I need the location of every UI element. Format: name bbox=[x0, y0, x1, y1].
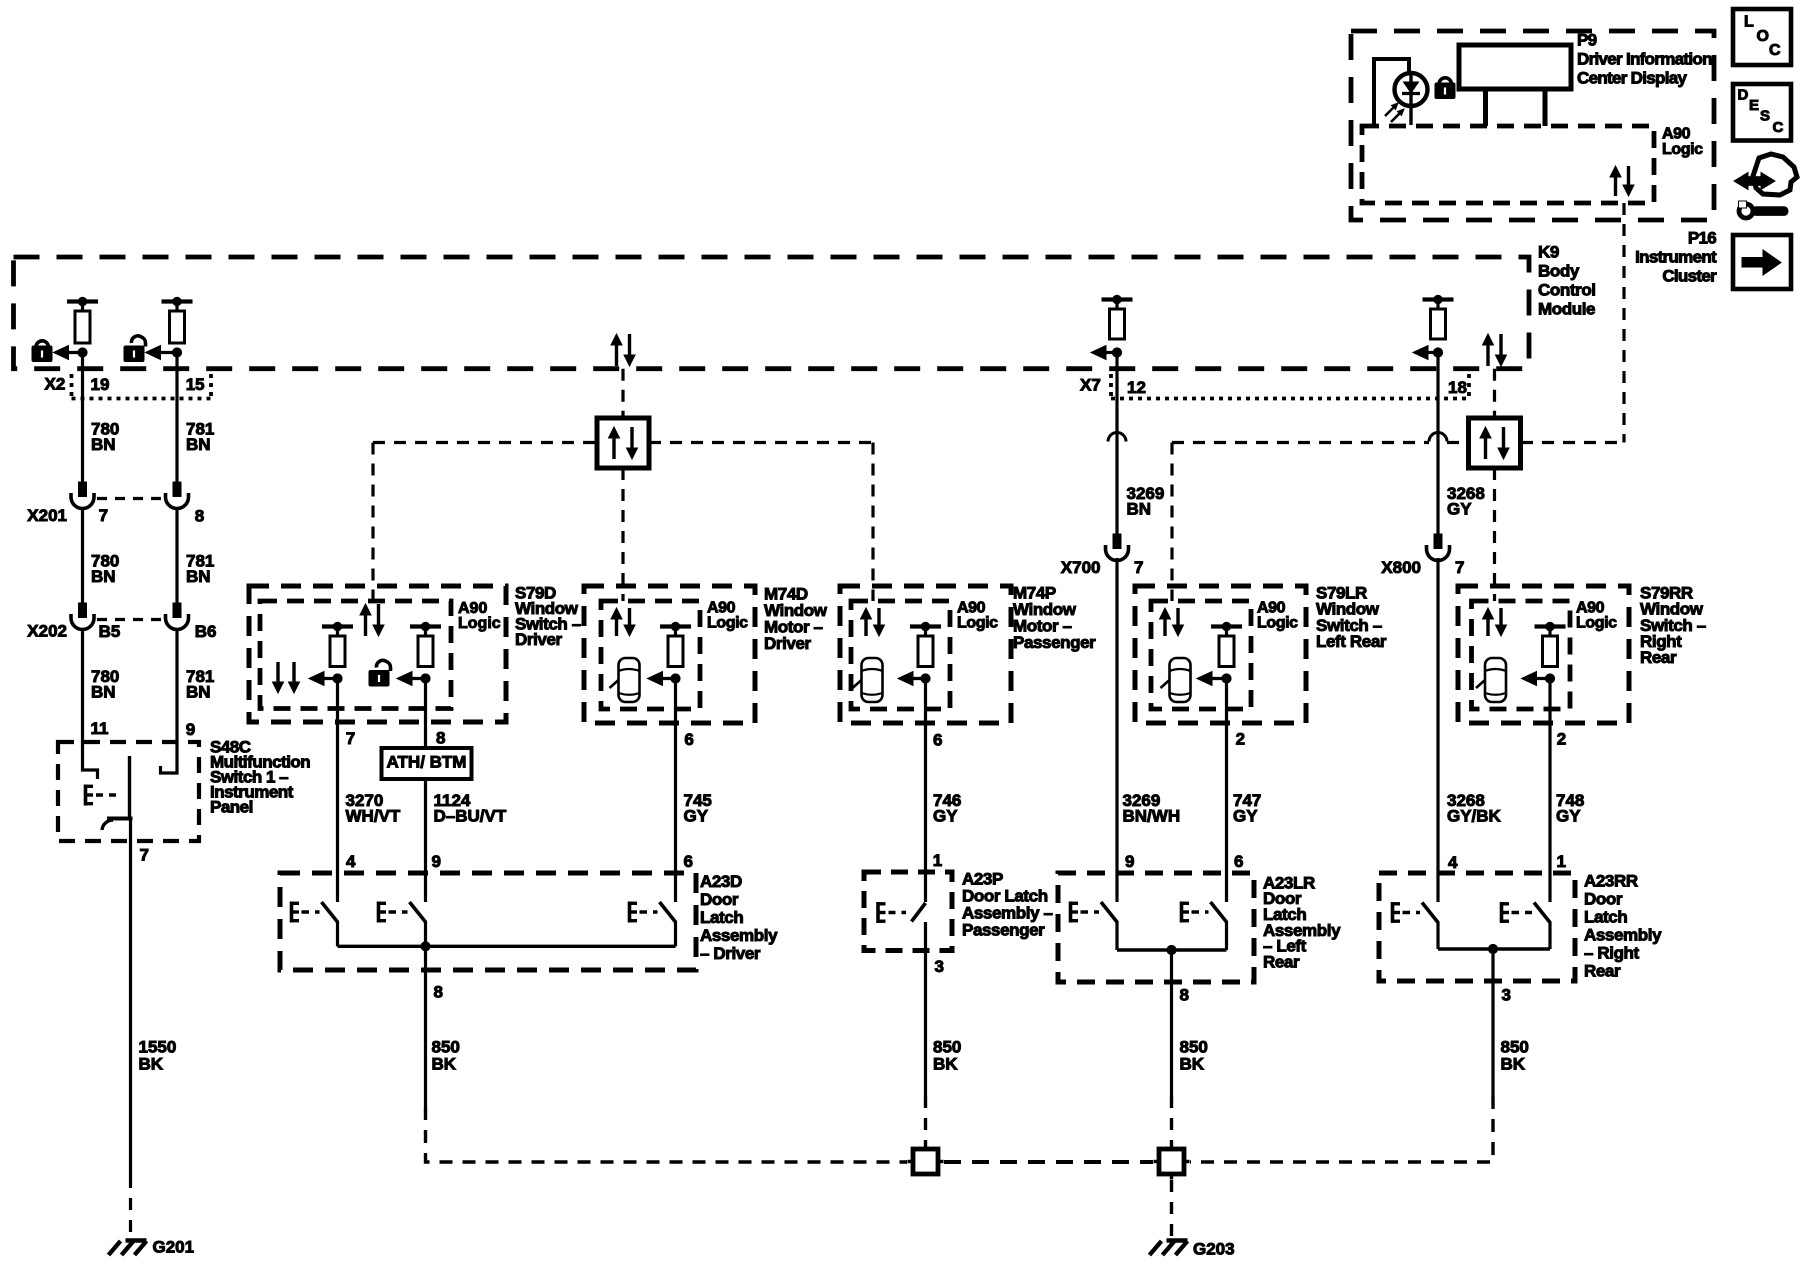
svg-text:Instrument: Instrument bbox=[1635, 247, 1717, 266]
svg-text:BK: BK bbox=[1180, 1054, 1205, 1073]
svg-text:Rear: Rear bbox=[1640, 648, 1677, 667]
svg-text:A90: A90 bbox=[1662, 126, 1691, 143]
svg-text:Logic: Logic bbox=[458, 615, 501, 632]
svg-text:D–BU/VT: D–BU/VT bbox=[434, 806, 507, 825]
svg-text:C: C bbox=[1773, 119, 1784, 136]
svg-text:2: 2 bbox=[1557, 729, 1566, 748]
wire 780 BN (X201 to X202) bbox=[81, 507, 84, 603]
resistor BCM window output (pin 18) bbox=[1423, 297, 1454, 301]
wire 3269 BN/WH (X700 to A23LR) bbox=[1115, 558, 1118, 902]
lock icon (unlocked) S79D bbox=[376, 660, 390, 671]
wire A23D pin 8 / 850 BK bbox=[424, 946, 427, 1107]
resistor BCM unlock output (pin 15) bbox=[162, 299, 193, 303]
svg-text:4: 4 bbox=[346, 852, 356, 871]
door latch switch 1 A23LR bbox=[1069, 902, 1073, 923]
resistor BCM lock output (pin 19) bbox=[67, 299, 98, 303]
svg-text:BN: BN bbox=[91, 682, 116, 701]
svg-text:Driver: Driver bbox=[764, 634, 812, 653]
svg-text:19: 19 bbox=[91, 375, 110, 394]
serial data arrows BCM (driver side) bbox=[615, 343, 618, 366]
serial arrows M74P bbox=[864, 617, 867, 636]
svg-text:BN: BN bbox=[91, 567, 116, 586]
svg-text:Door: Door bbox=[1584, 889, 1623, 908]
wire 780 BN (pin 19 to X201) bbox=[81, 353, 84, 483]
svg-text:B5: B5 bbox=[99, 622, 121, 641]
wire S48C pin 7 bbox=[129, 819, 132, 1177]
svg-text:Latch: Latch bbox=[1584, 907, 1627, 926]
svg-text:Rear: Rear bbox=[1584, 961, 1621, 980]
svg-text:Assembly: Assembly bbox=[700, 926, 778, 945]
A90 Logic box S79LR bbox=[1151, 601, 1251, 709]
resistor M74P bbox=[910, 624, 941, 628]
svg-text:Latch: Latch bbox=[700, 908, 743, 927]
arrow S79LR bbox=[1208, 677, 1227, 680]
serial data line rear gateway branches bbox=[1172, 441, 1429, 444]
svg-text:1: 1 bbox=[933, 851, 942, 870]
svg-text:BK: BK bbox=[933, 1054, 958, 1073]
svg-text:9: 9 bbox=[186, 720, 195, 739]
wire S79D pin 7 bbox=[336, 679, 339, 903]
connector X2 bbox=[70, 374, 74, 399]
svg-text:O: O bbox=[1757, 28, 1769, 45]
common wire A23D bbox=[338, 945, 676, 948]
A90 Logic box S79RR bbox=[1472, 601, 1571, 709]
component box P9 Driver Information Center Display bbox=[1351, 31, 1714, 220]
A90 Logic box S79D bbox=[260, 601, 451, 709]
svg-text:X202: X202 bbox=[27, 621, 67, 640]
svg-text:X201: X201 bbox=[27, 506, 67, 525]
wire M74D pin 6 / 745 GY bbox=[674, 679, 677, 903]
svg-text:X7: X7 bbox=[1080, 375, 1101, 394]
car icon S79RR bbox=[1485, 658, 1506, 702]
door latch switch 2 A23LR bbox=[1180, 902, 1184, 923]
svg-text:P16: P16 bbox=[1688, 228, 1716, 247]
serial data arrows in P9 A90 bbox=[1614, 175, 1617, 196]
label box ATH/BTM bbox=[382, 748, 472, 779]
svg-text:11: 11 bbox=[91, 719, 109, 738]
svg-text:Logic: Logic bbox=[1257, 615, 1298, 632]
svg-text:BK: BK bbox=[1501, 1054, 1526, 1073]
car icon S79LR bbox=[1170, 658, 1191, 702]
component box A23D Door Latch Assembly - Driver bbox=[280, 873, 696, 970]
svg-text:Left Rear: Left Rear bbox=[1316, 632, 1387, 651]
svg-text:Module: Module bbox=[1538, 299, 1595, 318]
svg-text:8: 8 bbox=[195, 506, 204, 525]
serial arrows S79D bbox=[364, 613, 367, 636]
svg-text:8: 8 bbox=[436, 728, 445, 747]
svg-text:K9: K9 bbox=[1538, 242, 1559, 261]
svg-text:6: 6 bbox=[1234, 852, 1243, 871]
door latch switch 1 A23RR bbox=[1391, 902, 1395, 923]
component box A23RR Door Latch Assembly - Right Rear bbox=[1379, 873, 1575, 981]
svg-text:BK: BK bbox=[432, 1054, 457, 1073]
door latch switch 3 A23D bbox=[628, 902, 632, 923]
svg-text:G201: G201 bbox=[153, 1237, 195, 1256]
svg-text:A23D: A23D bbox=[700, 872, 742, 891]
svg-text:P9: P9 bbox=[1577, 30, 1597, 49]
wire M74P pin 6 / 746 GY bbox=[924, 679, 927, 873]
wire to G203 bbox=[1170, 1180, 1173, 1236]
car icon M74D bbox=[619, 658, 640, 702]
crossover hump X800 wire bbox=[1429, 433, 1447, 442]
svg-text:BN: BN bbox=[186, 567, 211, 586]
svg-text:Driver Information: Driver Information bbox=[1577, 49, 1712, 68]
svg-text:Logic: Logic bbox=[707, 615, 748, 632]
svg-text:Passenger: Passenger bbox=[962, 920, 1045, 939]
svg-text:Center Display: Center Display bbox=[1577, 68, 1687, 87]
photocell icon bbox=[1374, 59, 1409, 125]
svg-text:7: 7 bbox=[346, 729, 355, 748]
component box S48C Multifunction Switch 1 - Instrument Panel bbox=[58, 742, 199, 841]
component box M74P Window Motor - Passenger bbox=[840, 586, 1011, 723]
svg-text:Assembly: Assembly bbox=[1584, 925, 1662, 944]
svg-text:7: 7 bbox=[1134, 558, 1143, 577]
ground G203 bbox=[1167, 1238, 1188, 1242]
arrow S79RR bbox=[1533, 677, 1551, 680]
svg-text:Logic: Logic bbox=[957, 615, 998, 632]
svg-text:Door: Door bbox=[700, 890, 739, 909]
wire A23LR pin 8 / 850 BK bbox=[1170, 950, 1173, 1096]
svg-text:BN: BN bbox=[186, 682, 211, 701]
svg-text:4: 4 bbox=[1448, 853, 1458, 872]
lock icon (locked) in P9 bbox=[1439, 78, 1451, 84]
svg-text:12: 12 bbox=[1127, 378, 1146, 397]
svg-text:6: 6 bbox=[684, 730, 693, 749]
svg-text:Control: Control bbox=[1538, 280, 1596, 299]
svg-text:3: 3 bbox=[935, 957, 944, 976]
svg-text:ATH/ BTM: ATH/ BTM bbox=[387, 752, 467, 771]
svg-text:6: 6 bbox=[684, 852, 693, 871]
connector X201 bbox=[79, 482, 87, 497]
wire 781 BN (pin 15 to X201) bbox=[175, 353, 178, 483]
serial data line driver gateway branches bbox=[373, 441, 597, 444]
serial data arrows BCM (rear side) bbox=[1486, 343, 1489, 366]
wire 781 BN (X202 to S48C pin 9) bbox=[175, 628, 178, 742]
svg-text:– Right: – Right bbox=[1584, 943, 1640, 962]
car icon M74P bbox=[862, 658, 883, 702]
svg-text:Body: Body bbox=[1538, 261, 1580, 280]
resistor S79RR bbox=[1535, 624, 1566, 628]
icon data link connector (arrows, car, wrench) bbox=[1753, 154, 1797, 195]
A90 Logic box inside P9 bbox=[1362, 126, 1654, 203]
wire A23RR pin 3 / 850 BK bbox=[1491, 949, 1494, 1096]
common wire A23LR bbox=[1117, 948, 1227, 951]
svg-text:WH/VT: WH/VT bbox=[346, 806, 401, 825]
component box S79D Window Switch - Driver bbox=[249, 586, 506, 722]
serial arrows S79RR bbox=[1486, 617, 1489, 636]
svg-text:Driver: Driver bbox=[515, 630, 563, 649]
svg-text:B6: B6 bbox=[195, 622, 217, 641]
svg-text:GY: GY bbox=[1233, 806, 1258, 825]
svg-text:BK: BK bbox=[139, 1054, 164, 1073]
wire 3269 BN (pin 12 to X700) bbox=[1115, 353, 1118, 535]
svg-text:G203: G203 bbox=[1193, 1239, 1235, 1258]
svg-text:15: 15 bbox=[186, 375, 205, 394]
icon box forward arrow bbox=[1733, 235, 1791, 289]
window down arrows bbox=[276, 662, 279, 684]
svg-text:8: 8 bbox=[434, 982, 443, 1001]
svg-text:E: E bbox=[1749, 97, 1759, 114]
ground bus dashed 850 BK bbox=[944, 1160, 1153, 1164]
wire 781 BN (X201 to X202) bbox=[175, 507, 178, 603]
svg-text:X2: X2 bbox=[45, 374, 66, 393]
svg-text:Logic: Logic bbox=[1576, 615, 1617, 632]
door latch switch A23P bbox=[876, 902, 880, 923]
svg-text:GY: GY bbox=[933, 806, 958, 825]
svg-text:BN: BN bbox=[186, 435, 211, 454]
common wire A23RR bbox=[1438, 947, 1550, 950]
svg-text:6: 6 bbox=[933, 730, 942, 749]
connector X700 bbox=[1113, 534, 1121, 549]
wire 3268 GY/BK (X800 to A23RR) bbox=[1436, 558, 1439, 902]
serial data symbol (boxed arrows) driver bbox=[597, 418, 649, 468]
connector X7 bbox=[1109, 374, 1113, 399]
svg-text:GY: GY bbox=[684, 806, 709, 825]
wire 3268 GY (pin 18 to X800) bbox=[1436, 353, 1439, 535]
wire S79D pin 8 bbox=[424, 679, 427, 903]
A90 Logic box M74P bbox=[851, 601, 950, 709]
S48C contact pin 11 bbox=[83, 742, 98, 779]
svg-text:9: 9 bbox=[432, 852, 441, 871]
wire S79LR pin 2 / 747 GY bbox=[1225, 679, 1228, 903]
wire S79RR pin 2 / 748 GY bbox=[1548, 679, 1551, 903]
svg-text:BN: BN bbox=[1127, 499, 1152, 518]
svg-text:– Driver: – Driver bbox=[700, 944, 761, 963]
svg-text:BN/WH: BN/WH bbox=[1123, 806, 1181, 825]
display icon P9 bbox=[1459, 45, 1571, 89]
svg-text:Panel: Panel bbox=[210, 797, 253, 816]
svg-text:1: 1 bbox=[1557, 852, 1566, 871]
wire 780 BN (X202 to S48C pin 11) bbox=[81, 628, 84, 742]
serial data line BCM to driver gateway bbox=[621, 369, 624, 418]
ground G201 bbox=[126, 1238, 147, 1242]
svg-text:2: 2 bbox=[1236, 729, 1245, 748]
arrow pin 12 bbox=[1102, 351, 1117, 354]
arrow S79D down bbox=[320, 677, 338, 680]
arrow pin 18 bbox=[1424, 351, 1438, 354]
svg-text:8: 8 bbox=[1180, 985, 1189, 1004]
svg-text:7: 7 bbox=[140, 845, 149, 864]
door latch switch 2 A23D bbox=[377, 902, 381, 923]
svg-text:C: C bbox=[1769, 42, 1781, 59]
svg-text:7: 7 bbox=[99, 506, 108, 525]
svg-text:A23RR: A23RR bbox=[1584, 871, 1638, 890]
svg-text:Passenger: Passenger bbox=[1013, 633, 1096, 652]
lock icon (unlocked) bbox=[131, 336, 145, 347]
serial arrows S79LR bbox=[1163, 617, 1166, 636]
arrow S79D unlock bbox=[408, 677, 426, 680]
resistor BCM window output (pin 12) bbox=[1102, 297, 1133, 301]
serial arrows M74D bbox=[615, 617, 618, 636]
component box S79RR Window Switch - Right Rear bbox=[1458, 586, 1629, 723]
arrow M74D bbox=[659, 677, 676, 680]
svg-text:L: L bbox=[1744, 14, 1754, 31]
svg-text:BN: BN bbox=[91, 435, 116, 454]
splice near A23P bbox=[908, 1160, 914, 1163]
resistor S79D unlock bbox=[410, 624, 441, 628]
A90 Logic box M74D bbox=[601, 601, 700, 709]
component box S79LR Window Switch - Left Rear bbox=[1135, 586, 1306, 723]
connector X202 bbox=[79, 603, 87, 618]
svg-text:D: D bbox=[1738, 86, 1749, 103]
svg-text:Logic: Logic bbox=[1662, 141, 1703, 158]
S48C contact pin 9 bbox=[161, 742, 178, 773]
icon box LOC bbox=[1733, 9, 1791, 65]
door latch switch 2 A23RR bbox=[1500, 902, 1504, 923]
resistor S79D down bbox=[322, 624, 353, 628]
svg-text:X800: X800 bbox=[1381, 558, 1421, 577]
component box M74D Window Motor - Driver bbox=[584, 586, 755, 723]
serial data symbol (boxed arrows) rear bbox=[1469, 418, 1521, 468]
connector X800 bbox=[1434, 534, 1442, 549]
arrow to unlock bbox=[157, 351, 178, 354]
svg-text:Cluster: Cluster bbox=[1662, 266, 1717, 285]
resistor S79LR bbox=[1211, 624, 1242, 628]
wire A23P pin 3 / 850 BK bbox=[924, 922, 927, 1096]
arrow to lock bbox=[65, 351, 83, 354]
splice G203 bbox=[1154, 1160, 1160, 1163]
svg-text:3: 3 bbox=[1502, 985, 1511, 1004]
component box K9 Body Control Module bbox=[14, 257, 1530, 369]
crossover hump pin 12 wire bbox=[1108, 433, 1126, 442]
component box A23LR Door Latch Assembly - Left Rear bbox=[1058, 873, 1254, 982]
door latch switch 1 A23D bbox=[290, 902, 294, 923]
svg-text:S: S bbox=[1760, 107, 1770, 124]
svg-text:7: 7 bbox=[1455, 558, 1464, 577]
serial data line BCM to rear gateway bbox=[1493, 369, 1496, 418]
S48C switch lever bbox=[84, 785, 88, 806]
svg-text:18: 18 bbox=[1448, 378, 1467, 397]
arrow M74P bbox=[909, 677, 926, 680]
svg-text:GY: GY bbox=[1556, 806, 1581, 825]
component box A23P Door Latch Assembly - Passenger bbox=[864, 872, 952, 951]
lock icon (locked) bbox=[36, 341, 48, 347]
icon box DESC bbox=[1733, 84, 1791, 141]
svg-text:GY: GY bbox=[1447, 499, 1472, 518]
svg-text:X700: X700 bbox=[1061, 558, 1101, 577]
resistor M74D bbox=[660, 624, 691, 628]
svg-text:GY/BK: GY/BK bbox=[1447, 806, 1502, 825]
svg-text:9: 9 bbox=[1125, 852, 1134, 871]
svg-text:Rear: Rear bbox=[1263, 952, 1300, 971]
